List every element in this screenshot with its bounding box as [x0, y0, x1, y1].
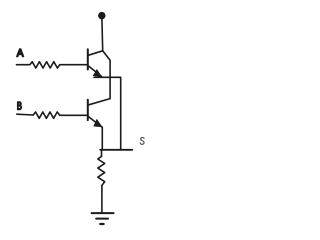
node B	[17, 101, 22, 113]
resistor (input B)	[33, 112, 60, 118]
wire Q1 emitter to output bus	[94, 77, 121, 150]
svg-text:A: A	[17, 48, 24, 60]
node S	[140, 138, 144, 145]
wire B resistor to Q2 base	[60, 114, 87, 116]
wire resistor to ground	[101, 185, 103, 212]
wire A resistor to Q1 base	[60, 64, 87, 66]
transistor Q2	[88, 100, 103, 128]
resistor (pull-down)	[98, 156, 105, 185]
wire node S horizontal	[100, 149, 132, 151]
wire Q2 emitter down to node S	[101, 127, 103, 150]
wire input B	[17, 113, 33, 116]
resistor (input A)	[30, 62, 60, 68]
supply node dot	[98, 12, 105, 19]
svg-text:B: B	[17, 101, 22, 113]
ground	[92, 213, 114, 224]
wire supply vertical	[101, 18, 104, 51]
wire supply to Q2 collector	[89, 51, 110, 105]
node A	[17, 48, 24, 60]
transistor Q1	[88, 49, 103, 76]
wire input A	[17, 64, 30, 66]
wire S to resistor	[101, 150, 103, 157]
